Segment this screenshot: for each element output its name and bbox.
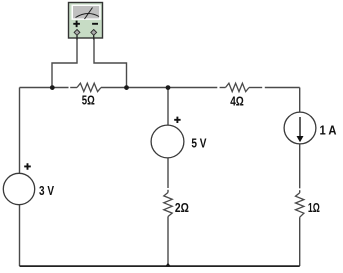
svg-text:1Ω: 1Ω: [308, 200, 320, 215]
svg-text:5 V: 5 V: [191, 135, 206, 150]
svg-text:3 V: 3 V: [39, 183, 54, 198]
svg-text:5Ω: 5Ω: [82, 93, 95, 108]
svg-text:4Ω: 4Ω: [230, 94, 244, 109]
svg-text:2Ω: 2Ω: [175, 200, 189, 215]
svg-text:1 A: 1 A: [320, 123, 338, 138]
